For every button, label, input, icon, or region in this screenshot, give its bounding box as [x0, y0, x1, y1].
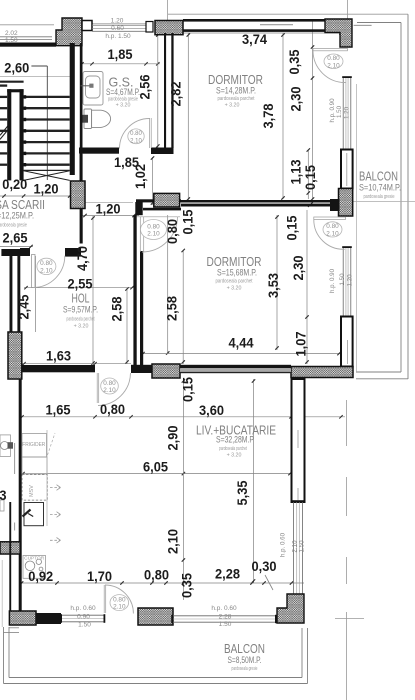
dim line stairs 0,20 / 1,20	[0, 195, 75, 197]
G.S. washbasin	[83, 72, 103, 106]
stair walk line	[31, 65, 47, 67]
neighbour wall line lower	[9, 502, 11, 611]
svg-text:2.10: 2.10	[130, 138, 142, 144]
svg-text:FRIGIDER: FRIGIDER	[22, 442, 45, 448]
dim line 5,35 vertical	[253, 379, 255, 583]
dim line 4,44	[141, 353, 341, 355]
svg-text:CUPTOR: CUPTOR	[24, 556, 45, 561]
svg-text:2,82: 2,82	[169, 82, 184, 107]
svg-text:+ 3.20: + 3.20	[74, 324, 89, 330]
svg-text:2,90: 2,90	[166, 426, 181, 451]
svg-text:1.50: 1.50	[299, 540, 306, 553]
svg-text:2.02: 2.02	[5, 30, 18, 37]
stairwell T-wall stem	[10, 256, 13, 332]
svg-text:S=15,68M.P.: S=15,68M.P.	[217, 268, 257, 279]
dim line 2,58 HOL vertical	[126, 288, 128, 364]
column bedroom2 bottom (hatched)	[152, 364, 180, 378]
svg-text:0.60: 0.60	[111, 25, 124, 32]
svg-text:pardoseala parchet: pardoseala parchet	[216, 279, 253, 285]
svg-text:1.20: 1.20	[343, 106, 350, 119]
svg-text:1.20: 1.20	[347, 274, 354, 287]
dim line 2,65	[0, 246, 33, 248]
svg-text:4,44: 4,44	[229, 336, 254, 351]
counter edge	[46, 430, 48, 526]
svg-text:2,58: 2,58	[165, 296, 180, 321]
dim line 1,13/0,15 window1	[307, 150, 309, 199]
svg-text:1,20: 1,20	[34, 182, 59, 197]
svg-text:0.80: 0.80	[113, 596, 126, 603]
stair direction cross	[24, 171, 70, 181]
pilaster square	[82, 21, 92, 31]
svg-text:MSV: MSV	[29, 485, 35, 497]
dim line 2,90/2,10/0,35 vertical	[182, 379, 184, 600]
svg-text:S=8,50M.P.: S=8,50M.P.	[228, 655, 262, 665]
wall G.S./bedroom1	[164, 33, 166, 148]
svg-text:6,05: 6,05	[143, 460, 168, 475]
svg-text:0,15: 0,15	[303, 165, 318, 190]
dim line 3,74	[172, 32, 341, 34]
svg-text:0,35: 0,35	[180, 573, 195, 598]
wall bedroom2/LIV thin	[180, 365, 291, 368]
svg-text:pardoseala gresie: pardoseala gresie	[364, 194, 395, 200]
svg-text:3,78: 3,78	[261, 103, 276, 128]
stair break diagonal	[0, 127, 10, 139]
svg-text:0,35: 0,35	[287, 49, 302, 74]
dim line 3,78 vertical	[282, 33, 284, 199]
svg-text:h.p. 0.60: h.p. 0.60	[211, 605, 237, 612]
dim line 6,05	[22, 473, 292, 475]
slab edge line top-right	[168, 13, 408, 15]
svg-text:2,60: 2,60	[4, 61, 29, 76]
column G.S./bedroom1	[155, 21, 183, 35]
stair landing line	[0, 76, 70, 78]
dim line 1,02 G.S. right	[152, 157, 154, 205]
svg-text:3,53: 3,53	[266, 273, 281, 298]
svg-text:0,30: 0,30	[252, 559, 277, 574]
svg-text:1,20: 1,20	[96, 202, 121, 217]
svg-text:1,65: 1,65	[46, 403, 71, 418]
wall right between windows	[341, 150, 353, 189]
dim line G.S. top 1,85	[82, 63, 160, 65]
svg-text:1,02: 1,02	[133, 164, 148, 189]
svg-text:1,85: 1,85	[108, 47, 133, 62]
svg-text:0,15: 0,15	[181, 377, 196, 402]
window LIV right	[293, 502, 295, 597]
svg-text:HOL: HOL	[72, 292, 90, 306]
svg-text:1,13: 1,13	[289, 159, 304, 184]
dim line 2,30/0,35 right bedroom1	[312, 21, 314, 199]
dim line LIV bottom chain	[22, 582, 304, 584]
dim line 2,58 bedroom2 vertical	[182, 250, 184, 364]
svg-text:pardoseala parchet: pardoseala parchet	[218, 96, 255, 102]
stair treads left flight	[0, 84, 7, 86]
svg-text:0.80: 0.80	[326, 223, 339, 230]
window bedroom2/balcony	[342, 248, 344, 316]
dim line 3,53 vertical	[276, 215, 278, 350]
window bedroom1/balcony	[342, 78, 344, 149]
slab edge line top-left	[0, 24, 54, 26]
balcony (bottom) railing outline	[3, 627, 5, 684]
svg-text:1.50: 1.50	[78, 622, 91, 629]
svg-text:2,30: 2,30	[289, 87, 304, 112]
svg-text:h.p. 0.90: h.p. 0.90	[329, 98, 336, 123]
window LIV bottom-left	[62, 614, 104, 616]
balcony slab edge near wall	[356, 84, 358, 372]
svg-text:2,28: 2,28	[215, 567, 240, 582]
door G.S.	[149, 118, 151, 148]
dim line 2,55	[24, 287, 134, 289]
door HOL to LIV	[96, 373, 98, 403]
dim line 0,80 door bedroom2	[136, 216, 180, 218]
column stair/hall	[71, 181, 86, 209]
kitchen counter segment	[22, 457, 47, 474]
svg-text:0.80: 0.80	[147, 223, 160, 230]
wall stairwell/G.S.	[70, 43, 75, 175]
svg-text:4,70: 4,70	[75, 246, 90, 271]
svg-text:pardoseala parchet: pardoseala parchet	[67, 317, 95, 323]
svg-text:+ 3.20: + 3.20	[227, 453, 242, 459]
svg-text:pardoseala parchet: pardoseala parchet	[219, 446, 247, 452]
svg-text:0.90: 0.90	[77, 614, 90, 621]
stair treads right flight	[24, 96, 70, 98]
svg-text:S=9,57M.P.: S=9,57M.P.	[63, 305, 98, 316]
cooktop CUPTOR	[23, 556, 46, 579]
svg-text:2.10: 2.10	[103, 387, 116, 394]
dim line 4,70 vertical	[92, 216, 94, 365]
svg-text:BALCON: BALCON	[359, 169, 398, 184]
wall stub at right wall	[330, 199, 340, 211]
svg-text:1,63: 1,63	[46, 349, 71, 364]
svg-text:1,07: 1,07	[294, 332, 309, 357]
column stair/kitchen (hatched)	[8, 332, 22, 379]
svg-text:2.10: 2.10	[40, 267, 53, 274]
wall below column (entry)	[80, 209, 83, 244]
dim line 2,82 vertical	[187, 33, 189, 200]
svg-text:0,15: 0,15	[285, 215, 300, 240]
svg-text:2.10: 2.10	[147, 231, 160, 238]
beam bedroom2/balcony bottom (hatched)	[291, 367, 353, 378]
svg-text:5,35: 5,35	[235, 480, 250, 505]
dim line corridor 1,20	[85, 201, 134, 203]
wall bedroom1 top	[183, 19, 326, 22]
wall HOL top, right piece	[65, 248, 81, 257]
dim line 1.20 window top	[92, 22, 146, 24]
svg-text:2,30: 2,30	[291, 256, 306, 281]
svg-text:3,74: 3,74	[242, 32, 267, 47]
svg-text:+ 3.20: + 3.20	[116, 103, 131, 109]
dim line 2,45 vertical	[35, 256, 37, 332]
column bottom-right (hatched L)	[277, 594, 304, 623]
svg-text:0.80: 0.80	[327, 55, 340, 62]
door LIV balcony	[103, 585, 105, 613]
svg-text:1.50: 1.50	[339, 273, 346, 286]
dim line 1,63	[22, 363, 131, 365]
G.S. toilet	[84, 109, 92, 129]
layout arrows	[50, 487, 61, 489]
exterior wall top-left	[0, 43, 56, 47]
svg-text:2,10: 2,10	[166, 529, 181, 554]
dishwasher MSV	[22, 475, 47, 501]
svg-text:S=32,28M.P: S=32,28M.P	[216, 435, 254, 445]
svg-text:0,80: 0,80	[100, 402, 125, 417]
column top-right (hatched L)	[325, 19, 352, 47]
svg-text:+ 3.20: + 3.20	[227, 286, 242, 292]
fridge (FRIGIDER)	[22, 434, 47, 458]
svg-text:2,43: 2,43	[0, 488, 7, 503]
column top-left (hatched L)	[56, 18, 82, 46]
svg-text:1.50: 1.50	[336, 105, 343, 118]
svg-text:2,55: 2,55	[68, 277, 93, 292]
door bedroom2 balcony	[314, 217, 346, 219]
column LIV bottom middle (hatched)	[138, 608, 173, 625]
svg-text:h.p. 0.60: h.p. 0.60	[70, 605, 96, 612]
svg-text:2,45: 2,45	[17, 294, 32, 319]
kitchen sink	[24, 503, 44, 526]
axis line top right	[347, 0, 349, 20]
svg-text:0,20: 0,20	[2, 177, 27, 192]
svg-text:BALCON: BALCON	[224, 641, 265, 656]
axis cross bottom right	[335, 618, 364, 620]
door bedroom2	[139, 217, 141, 253]
svg-text:S=14,28M.P.: S=14,28M.P.	[216, 86, 256, 97]
svg-text:pardoseala gresie: pardoseala gresie	[0, 223, 27, 229]
svg-text:2,65: 2,65	[3, 231, 28, 246]
wall LIV right	[292, 379, 305, 502]
svg-text:h.p. 0.60: h.p. 0.60	[280, 532, 287, 557]
stairwell T-wall cap	[1, 249, 30, 256]
wall right below window2	[341, 317, 353, 367]
svg-text:1,70: 1,70	[87, 569, 112, 584]
wall HOL/bedroom2	[133, 215, 136, 372]
leader 0,30	[265, 575, 273, 590]
neighbour counter	[0, 435, 11, 457]
svg-text:h.p. 1.50: h.p. 1.50	[105, 33, 131, 40]
wall bedroom2 bottom corner	[131, 365, 152, 373]
svg-text:h.p. 0.90: h.p. 0.90	[329, 268, 336, 293]
axis line top G.S.	[167, 0, 169, 21]
column right balcony middle	[339, 189, 353, 217]
svg-text:3,60: 3,60	[199, 403, 224, 418]
svg-text:2,58: 2,58	[110, 296, 125, 321]
svg-text:S=10,74M.P.: S=10,74M.P.	[359, 183, 401, 193]
svg-text:0,80: 0,80	[165, 219, 180, 244]
balcony (right) railing outline	[407, 14, 409, 379]
column LIV bottom-left (hatched)	[9, 611, 36, 625]
column kitchen wall (hatched)	[0, 542, 20, 554]
wall divider bedroom1/bedroom2	[181, 200, 340, 203]
svg-text:0,92: 0,92	[28, 569, 53, 584]
wall HOL bottom	[22, 365, 95, 372]
svg-text:+ 3.20: + 3.20	[225, 103, 240, 109]
dim line LIV top 1,65/0,80/3,60	[22, 416, 345, 418]
svg-text:0.80: 0.80	[130, 131, 142, 137]
wall corridor/bedroom2 top	[136, 199, 181, 202]
wall G.S. bottom right piece	[151, 148, 174, 155]
svg-text:0.80: 0.80	[103, 380, 116, 387]
wall G.S. bottom left piece	[79, 148, 119, 154]
dim line 2,56 vertical	[157, 33, 159, 148]
door entry HOL	[32, 255, 36, 288]
window G.S. top	[92, 24, 146, 26]
svg-text:0,80: 0,80	[144, 568, 169, 583]
svg-text:2.10: 2.10	[326, 230, 339, 237]
axis line bottom right (dash-dot)	[346, 400, 348, 446]
window 2.02/1.50 top-left	[0, 36, 52, 38]
svg-text:0,15: 0,15	[181, 209, 196, 234]
kitchen left wall	[19, 379, 22, 624]
svg-text:pardoseala gresie: pardoseala gresie	[232, 666, 258, 672]
svg-text:1.20: 1.20	[111, 17, 124, 24]
neighbour counter edge	[14, 443, 16, 474]
wall LIV bottom left piece	[36, 613, 61, 624]
wall HOL top, left piece	[20, 248, 30, 256]
window balcony bottom	[173, 615, 275, 617]
column corridor/bedroom2	[154, 193, 180, 207]
svg-text:2.10: 2.10	[291, 540, 298, 553]
svg-text:2.28: 2.28	[219, 614, 232, 621]
door bedroom1 balcony	[313, 48, 347, 50]
dim line 2,30/1,07 bedroom2 right	[306, 210, 308, 364]
svg-text:2.10: 2.10	[327, 62, 340, 69]
svg-text:1.50: 1.50	[219, 621, 232, 628]
svg-text:2.10: 2.10	[113, 604, 126, 611]
svg-text:1.50: 1.50	[5, 37, 18, 44]
stair railing	[7, 89, 11, 180]
svg-text:S=12,25M.P.: S=12,25M.P.	[0, 211, 34, 222]
svg-text:0.80: 0.80	[40, 260, 53, 267]
pilaster square right of G.S. window	[146, 22, 153, 33]
